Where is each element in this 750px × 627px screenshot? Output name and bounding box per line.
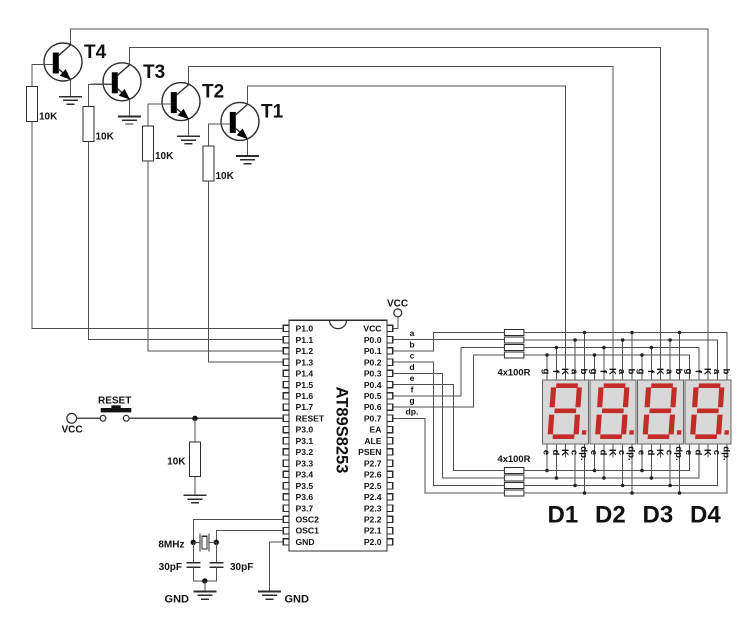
svg-text:b: b [625,369,636,375]
wire T3 base resistor to MCU port pin [89,141,284,339]
svg-text:g: g [588,369,599,375]
svg-text:P2.5: P2.5 [364,481,382,491]
pin VCC (right) [363,324,392,334]
bus segment dp across displays (bottom) [524,444,727,493]
capacitor C2 30pF [209,563,223,567]
wire segment c tap to D2 bottom and junction [622,444,624,486]
wire T3 base to base resistor [89,84,113,106]
svg-text:e: e [635,450,646,455]
pin P1.2 (left) [283,346,313,356]
pin labels D3 top (g f K a b) [635,368,684,375]
svg-text:K: K [654,449,665,456]
capacitor C1 30pF [186,563,200,567]
pin P2.6 (right) [364,470,393,480]
wire segment f tap to D2 and junction [603,348,605,381]
wire segment e tap to D3 bottom and junction [641,444,643,471]
junction capacitor ground node [202,578,207,583]
pin P3.4 (left) [283,470,313,480]
wire node to ground [204,581,206,592]
svg-text:c: c [664,450,675,456]
svg-text:D4: D4 [690,502,721,529]
pin labels D1 top (g f K a b) [540,368,589,375]
svg-text:g: g [635,369,646,375]
svg-text:EA: EA [370,425,382,435]
pin P2.4 (right) [364,492,393,502]
svg-text:g: g [540,369,551,375]
bus segment b across displays [524,333,727,381]
pin K (common) bottom stub D3 [660,444,662,458]
wire VCC terminal to VCC pin [393,317,398,329]
pin RESET (left) [283,413,325,423]
wire OSC1 to crystal node [216,531,283,543]
wire segment dp tap to D1 bottom and junction [584,444,586,493]
wire capacitors to common ground node [193,567,216,581]
svg-text:VCC: VCC [363,324,381,334]
ground (crystal) [193,592,216,600]
wire T1 base resistor to MCU port pin [209,181,284,362]
svg-text:10K: 10K [96,131,115,142]
resistor 10K (T1 base) [203,146,214,181]
wire segment b tap to D1 and junction [584,333,586,381]
svg-text:c: c [711,450,722,456]
7-segment display D1 [543,380,590,444]
wire segment d tap to D2 bottom and junction [603,444,605,478]
svg-text:e: e [540,450,551,455]
pin P2.5 (right) [364,481,393,491]
svg-text:P0.2: P0.2 [364,357,382,367]
svg-text:dp.: dp. [673,446,684,460]
svg-text:f: f [411,384,414,394]
wire T1 collector rail to display common K column [248,86,566,380]
svg-text:P0.7: P0.7 [364,413,382,423]
svg-text:g: g [683,369,694,375]
wire left node to crystal [193,541,200,543]
svg-text:GND: GND [296,537,315,547]
pin P0.1 (right) [364,346,393,356]
wire switch to RESET pin [129,417,283,419]
svg-text:P3.5: P3.5 [296,481,314,491]
pin P2.1 (right) [364,526,393,536]
pushbutton switch (RESET) [100,405,131,421]
svg-text:GND: GND [165,594,190,606]
svg-text:K: K [559,449,570,456]
wire segment e tap to D1 bottom and junction [546,444,548,471]
wire segment e tap to D2 bottom and junction [594,444,596,471]
wire pull-down resistor to ground [194,477,196,496]
svg-text:GND: GND [285,594,310,606]
pin P3.1 (left) [283,436,313,446]
pin OSC2 (left) [283,515,319,525]
svg-text:b: b [673,369,684,375]
svg-text:4x100R: 4x100R [498,367,531,378]
wire segment a tap to D1 and junction [574,340,576,380]
wire T1 emitter to ground [247,139,249,156]
svg-text:e: e [683,450,694,455]
svg-text:OSC1: OSC1 [296,526,320,536]
VCC terminal (reset button) [67,413,77,423]
svg-text:VCC: VCC [61,425,82,436]
svg-text:c: c [569,450,580,456]
wire T2 emitter to ground [188,119,190,136]
svg-text:K: K [654,368,665,375]
transistor T3 [91,63,141,101]
resistor network RN2 4x100R (segments e d c dp) [504,468,524,497]
wire T4 collector rail to display common K column [71,29,709,380]
bus segment c across displays (bottom) [524,444,718,486]
IC U1 AT89S8253 body [289,320,387,551]
junction crystal left node [191,540,196,545]
ground at T1 emitter [236,156,259,164]
wire OSC2 to crystal node [193,519,283,542]
wire T4 emitter to ground [70,79,72,96]
ground (reset pull-down) [184,495,207,503]
pin P0.2 (right) [364,357,393,367]
bus segment a across displays [524,340,718,380]
resistor 10K (T3 base) [83,106,94,141]
7-segment display D3 [638,380,685,444]
pin labels D4 bottom (e d K c dp.) [683,446,732,460]
svg-text:P2.1: P2.1 [364,526,382,536]
pin P3.0 (left) [283,425,313,435]
svg-text:ALE: ALE [364,436,381,446]
wire segment a tap to D3 and junction [669,340,671,380]
wire segment c tap to D3 bottom and junction [669,444,671,486]
pin PSEN (right) [358,447,393,457]
pin P0.7 (right) [364,413,393,423]
wire VCC terminal to switch [77,417,101,419]
wire reset node to pull-down resistor [194,418,196,442]
svg-text:P2.2: P2.2 [364,515,382,525]
svg-text:c: c [616,450,627,456]
svg-text:K: K [702,449,713,456]
pin labels D3 bottom (e d K c dp.) [635,446,684,460]
bus segment g across displays [524,355,690,380]
ground (MCU GND pin) [258,592,281,600]
svg-text:8MHz: 8MHz [158,540,184,551]
svg-text:30pF: 30pF [159,562,182,573]
pin P1.5 (left) [283,380,313,390]
wire segment g tap to D1 and junction [546,355,548,380]
svg-text:P1.6: P1.6 [296,391,314,401]
7-segment display D4 [685,380,732,444]
pin P3.2 (left) [283,447,313,457]
wire segment f tap to D3 and junction [650,348,652,381]
wire left node to capacitor C1 [192,542,194,563]
svg-text:10K: 10K [39,112,58,123]
svg-text:P0.4: P0.4 [364,380,382,390]
svg-text:P3.7: P3.7 [296,503,314,513]
wire T3 collector rail to display common K column [130,48,661,381]
svg-text:a: a [410,328,415,338]
resistor 10K (T2 base) [143,126,154,161]
wire T1 base to base resistor [209,124,231,146]
svg-text:30pF: 30pF [230,562,253,573]
pin ALE (right) [364,436,392,446]
wire segment b tap to D3 and junction [679,333,681,381]
wire segment f tap to D1 and junction [555,348,557,381]
7-segment display D2 [590,380,637,444]
pin P1.1 (left) [283,335,313,345]
pin labels D1 bottom (e d K c dp.) [540,446,589,460]
wire segment dp tap to D2 bottom and junction [631,444,633,493]
pin P3.6 (left) [283,492,313,502]
pin P0.0 (right) [364,335,393,345]
svg-text:P1.7: P1.7 [296,402,314,412]
svg-text:P2.0: P2.0 [364,537,382,547]
svg-text:T1: T1 [261,101,284,122]
svg-text:K: K [607,368,618,375]
svg-text:dp.: dp. [720,446,731,460]
wire segment g tap to D2 and junction [594,355,596,380]
svg-text:D3: D3 [643,502,674,529]
svg-text:T3: T3 [143,62,165,83]
svg-text:P1.0: P1.0 [296,324,314,334]
bus segment d across displays (bottom) [524,444,699,478]
resistor 10K (T4 base) [27,87,38,122]
svg-text:K: K [559,368,570,375]
pin P0.4 (right) [364,380,393,390]
pin labels D2 bottom (e d K c dp.) [588,446,637,460]
svg-text:g: g [409,396,414,406]
svg-text:D2: D2 [595,502,626,529]
wire segment d tap to D3 bottom and junction [650,444,652,478]
svg-text:D1: D1 [548,502,579,529]
wire T2 base to base resistor [148,104,171,126]
bus segment f across displays [524,348,699,381]
wire P0.4 (segment e) to resistor network [393,385,505,471]
transistor T4 [32,43,82,81]
svg-text:P2.6: P2.6 [364,470,382,480]
pin OSC1 (left) [283,526,319,536]
svg-text:b: b [720,369,731,375]
junction at reset node [192,416,197,421]
svg-text:b: b [578,369,589,375]
wire P0.3 (segment d) to resistor network [393,373,505,478]
wire segment b tap to D2 and junction [631,333,633,381]
wire segment g tap to D3 and junction [641,355,643,380]
svg-text:P0.3: P0.3 [364,369,382,379]
pin P2.0 (right) [364,537,393,547]
pin P1.6 (left) [283,391,313,401]
svg-text:a: a [569,369,580,375]
pin P1.4 (left) [283,369,313,379]
wire segment a tap to D2 and junction [622,340,624,380]
wire P0.7 (segment dp) to resistor network [393,418,505,493]
wire T2 base resistor to MCU port pin [148,161,283,351]
svg-text:c: c [410,351,415,361]
wire right node to capacitor C2 [215,542,217,563]
svg-text:K: K [702,368,713,375]
pin P3.3 (left) [283,458,313,468]
pin P1.3 (left) [283,357,313,367]
pin P1.0 (left) [283,324,313,334]
pin P2.3 (right) [364,503,393,513]
svg-text:P3.1: P3.1 [296,436,314,446]
transistor T2 [150,83,200,121]
pin P2.2 (right) [364,515,393,525]
wire GND pin to ground [270,542,284,592]
pin labels D4 top (g f K a b) [683,368,732,375]
svg-text:a: a [711,369,722,375]
svg-text:P0.1: P0.1 [364,346,382,356]
pin K (common) bottom stub D1 [565,444,567,458]
svg-text:P3.3: P3.3 [296,458,314,468]
ground at T3 emitter [118,116,141,124]
svg-text:4x100R: 4x100R [498,453,531,464]
svg-text:a: a [664,369,675,375]
wire P0.1 (segment b) to resistor network [393,333,505,351]
wire P0.6 (segment g) to resistor network [393,355,505,407]
svg-text:RESET: RESET [98,396,131,407]
pin K (common) bottom stub D4 [707,444,709,458]
svg-text:10K: 10K [216,171,235,182]
svg-text:P1.1: P1.1 [296,335,314,345]
resistor network RN1 4x100R (segments b a f g) [504,330,524,359]
svg-text:P2.7: P2.7 [364,458,382,468]
svg-text:AT89S8253: AT89S8253 [333,387,351,474]
wire P0.0 (segment a) to resistor network [393,339,505,341]
svg-text:K: K [607,449,618,456]
svg-text:b: b [409,339,414,349]
wire P0.2 (segment c) to resistor network [393,362,505,485]
svg-text:P3.2: P3.2 [296,447,314,457]
svg-text:P0.6: P0.6 [364,402,382,412]
svg-text:10K: 10K [155,151,174,162]
wire segment d tap to D1 bottom and junction [555,444,557,478]
svg-text:P2.4: P2.4 [364,492,382,502]
svg-text:dp.: dp. [578,446,589,460]
ground at T4 emitter [59,97,82,105]
pin P0.3 (right) [364,369,393,379]
svg-text:OSC2: OSC2 [296,515,320,525]
svg-text:PSEN: PSEN [358,447,381,457]
svg-text:d: d [409,362,414,372]
svg-text:P1.5: P1.5 [296,380,314,390]
pin K (common) bottom stub D2 [612,444,614,458]
svg-text:P1.2: P1.2 [296,346,314,356]
wire crystal to right node [209,541,216,543]
pin P0.5 (right) [364,391,393,401]
pin P3.5 (left) [283,481,313,491]
svg-text:T2: T2 [202,82,224,103]
wire P0.5 (segment f) to resistor network [393,348,505,396]
svg-text:P1.4: P1.4 [296,369,314,379]
transistor T1 [209,102,259,140]
wire segment c tap to D1 bottom and junction [574,444,576,486]
svg-text:P1.3: P1.3 [296,357,314,367]
svg-text:a: a [616,369,627,375]
svg-text:e: e [588,450,599,455]
wire segment dp tap to D3 bottom and junction [679,444,681,493]
svg-text:T4: T4 [84,42,107,63]
pin labels D2 top (g f K a b) [588,368,637,375]
junction crystal right node [214,540,219,545]
svg-text:P3.4: P3.4 [296,470,314,480]
svg-text:VCC: VCC [387,298,408,309]
wire T3 emitter to ground [129,99,131,116]
VCC power terminal at MCU [394,309,402,317]
svg-text:dp.: dp. [625,446,636,460]
svg-text:dp.: dp. [406,407,419,417]
bus segment e across displays (bottom) [524,444,690,471]
svg-text:P0.5: P0.5 [364,391,382,401]
wire T4 base resistor to MCU port pin [32,122,283,329]
svg-text:10K: 10K [167,457,186,468]
ground at T2 emitter [177,136,200,144]
pin GND (left) [283,537,314,547]
svg-text:P3.0: P3.0 [296,425,314,435]
pin P1.7 (left) [283,402,313,412]
svg-text:P2.3: P2.3 [364,503,382,513]
pin EA (right) [370,425,393,435]
wire T4 base to base resistor [32,65,53,87]
crystal X1 8MHz [200,533,209,551]
pin P3.7 (left) [283,503,313,513]
svg-text:P3.6: P3.6 [296,492,314,502]
svg-text:P0.0: P0.0 [364,335,382,345]
wire T2 collector rail to display common K column [189,67,614,381]
svg-text:RESET: RESET [296,413,325,423]
resistor 10K (reset pull-down) [190,442,201,476]
svg-text:e: e [410,373,415,383]
pin P0.6 (right) [364,402,393,412]
pin P2.7 (right) [364,458,393,468]
